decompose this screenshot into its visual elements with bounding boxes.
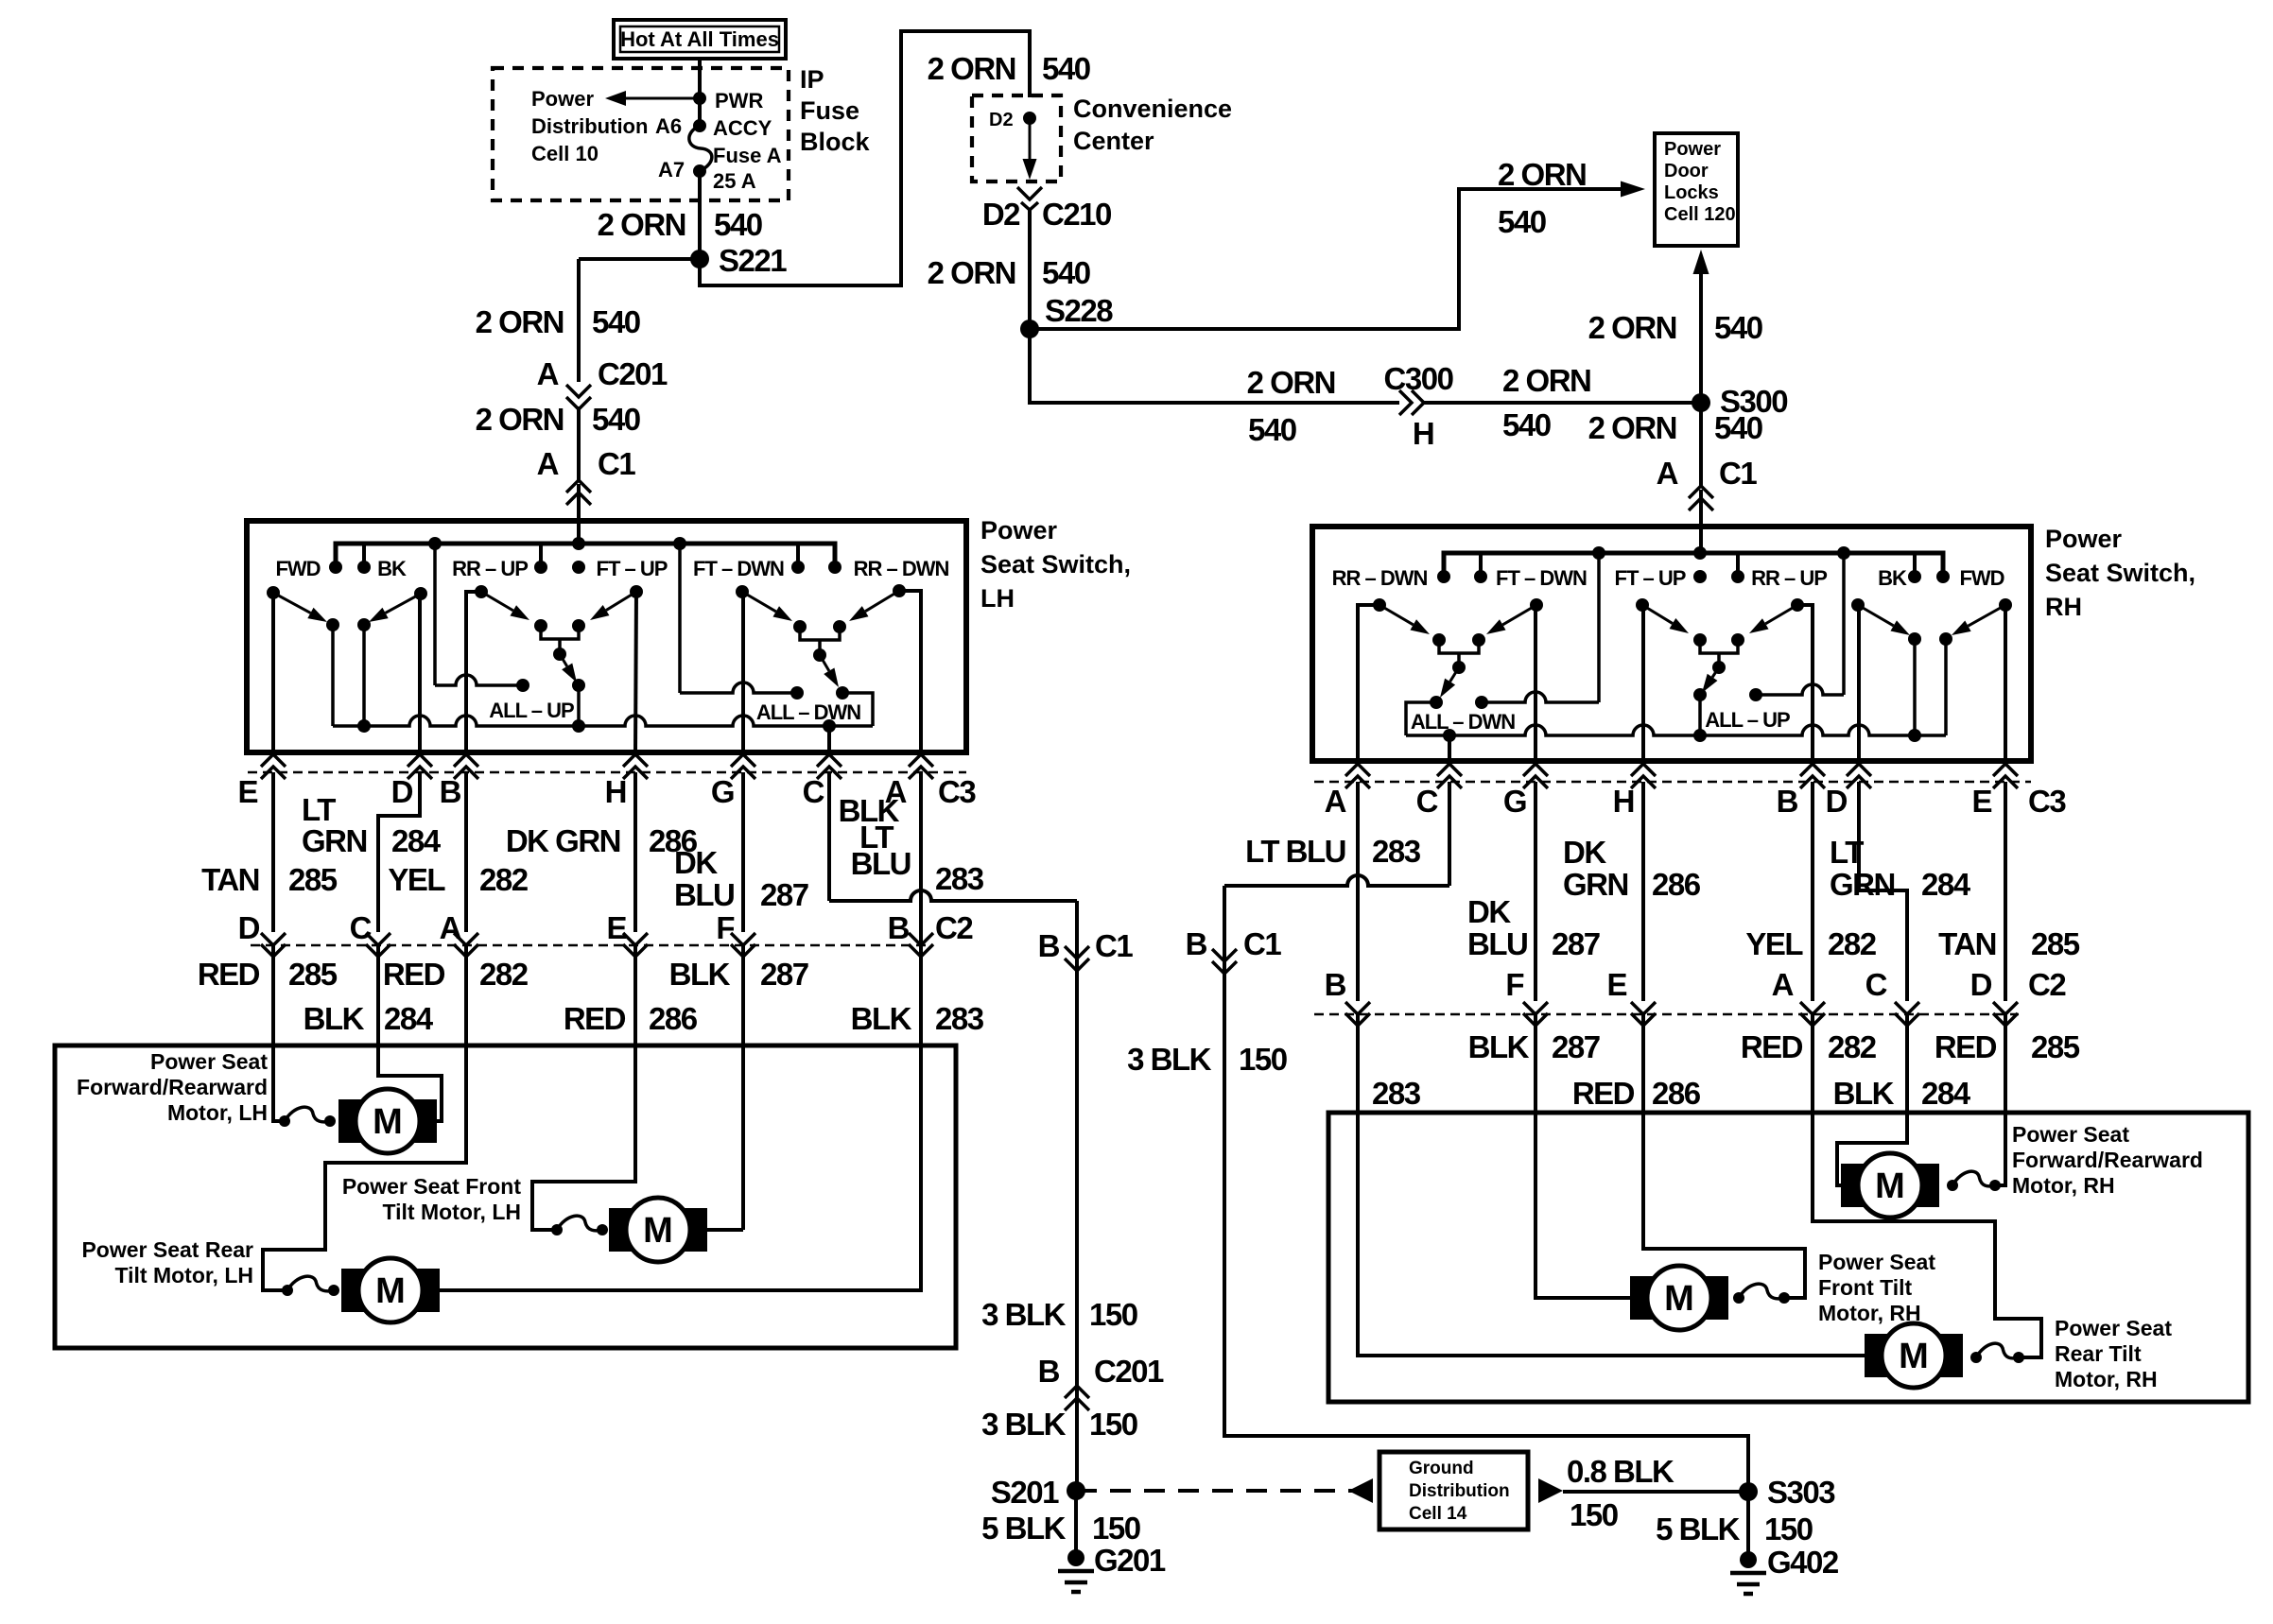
RH ALL-UP feed dot <box>1749 688 1762 701</box>
svg-text:540: 540 <box>1042 255 1090 290</box>
power feed box "Hot At All Times" <box>614 20 786 59</box>
LH C3 pin labels <box>237 774 976 809</box>
svg-text:A: A <box>537 446 559 481</box>
svg-text:287: 287 <box>1552 926 1600 961</box>
svg-text:150: 150 <box>1092 1511 1140 1546</box>
svg-text:C3: C3 <box>938 774 976 809</box>
label 2 ORN 540 (fuse output) <box>598 207 762 242</box>
svg-text:2 ORN: 2 ORN <box>1588 310 1676 345</box>
LH switch feed bus <box>336 544 835 567</box>
svg-text:285: 285 <box>288 862 338 897</box>
svg-text:Power Seat: Power Seat <box>2012 1122 2129 1147</box>
Power Distribution Cell 10 label <box>531 87 685 181</box>
svg-text:540: 540 <box>1042 51 1090 86</box>
svg-text:286: 286 <box>649 1001 698 1036</box>
svg-text:RED: RED <box>1741 1029 1803 1064</box>
wire RH pin A (LT BLU 283) <box>1356 782 1360 1001</box>
wire LH C1 down to S201 <box>1075 901 1079 1491</box>
svg-text:G201: G201 <box>1094 1543 1166 1578</box>
label 3 BLK 150 (upper) <box>981 1297 1137 1332</box>
RH ALL-DWN feed dot <box>1475 696 1488 709</box>
svg-text:BLK: BLK <box>1468 1029 1530 1064</box>
LH switch position labels <box>275 557 948 580</box>
label D2 C210 <box>982 197 1111 232</box>
svg-text:C: C <box>803 774 824 809</box>
svg-text:YEL: YEL <box>1745 926 1803 961</box>
svg-text:C: C <box>350 910 372 945</box>
dashed ground distribution link <box>1076 1489 1362 1493</box>
svg-text:Rear Tilt: Rear Tilt <box>2055 1341 2142 1366</box>
svg-text:2 ORN: 2 ORN <box>1502 363 1590 398</box>
svg-text:540: 540 <box>592 402 640 437</box>
svg-text:Power Seat Front: Power Seat Front <box>342 1174 521 1199</box>
wire RH pin E (TAN 285) <box>2004 782 2007 1001</box>
svg-text:A: A <box>537 356 559 391</box>
LH RR-UP pivot <box>466 585 488 752</box>
svg-text:283: 283 <box>935 861 984 896</box>
svg-text:Ground: Ground <box>1409 1459 1474 1478</box>
LH C3 connector chevrons <box>261 754 933 779</box>
svg-text:G: G <box>1503 784 1526 819</box>
svg-text:Power Seat: Power Seat <box>2055 1316 2172 1340</box>
svg-text:BLU: BLU <box>851 846 911 881</box>
LH RR-UP throw arrow <box>481 592 529 620</box>
svg-text:M: M <box>1664 1279 1694 1319</box>
svg-text:Power: Power <box>980 516 1058 544</box>
svg-text:C: C <box>1865 967 1887 1002</box>
svg-text:3 BLK: 3 BLK <box>1127 1042 1212 1077</box>
connector C201 (ground) chevrons <box>1065 1386 1089 1410</box>
svg-text:287: 287 <box>1552 1029 1600 1064</box>
svg-text:B: B <box>1777 784 1798 819</box>
svg-text:YEL: YEL <box>388 862 445 897</box>
wire RH D-pin to FR motor contact (RED 285) <box>1995 1014 2005 1185</box>
svg-text:Power Seat: Power Seat <box>1818 1250 1935 1274</box>
RH FT-DWN pivot <box>1530 598 1543 761</box>
LH BK contact terminal <box>357 618 371 726</box>
wire A7 down to S221 <box>698 171 702 259</box>
connector C1 symbol (RH) <box>1689 486 1713 510</box>
svg-text:Locks: Locks <box>1664 182 1719 203</box>
RH C3 connector chevrons <box>1345 764 2018 788</box>
LH ALL-DWN feed dot <box>790 686 804 700</box>
LH FT-DWN throw arrow <box>742 592 792 621</box>
RH DWN common node <box>1452 661 1466 674</box>
label LT GRN 284 (RH) <box>1830 835 1971 902</box>
label RED 285 (RH) <box>1935 1029 2080 1064</box>
svg-text:287: 287 <box>760 957 808 992</box>
motor M front tilt LH <box>609 1198 707 1262</box>
svg-text:E: E <box>1971 784 1991 819</box>
svg-text:RED: RED <box>1935 1029 1997 1064</box>
svg-text:ALL – UP: ALL – UP <box>489 699 574 722</box>
svg-text:25 A: 25 A <box>713 169 756 193</box>
LH RR-DWN throw arrow <box>849 591 899 621</box>
wire RH pin D (LT GRN 284) jog right <box>1859 782 1907 1001</box>
label DK GRN 286 <box>506 823 698 858</box>
svg-text:GRN: GRN <box>1830 867 1895 902</box>
svg-text:RED: RED <box>564 1001 626 1036</box>
svg-text:282: 282 <box>1828 1029 1877 1064</box>
svg-text:540: 540 <box>1714 410 1762 445</box>
label DK BLU 287 (RH) <box>1467 894 1600 961</box>
motor M forward/rearward RH <box>1841 1153 1939 1218</box>
LH common bus dots <box>357 719 836 733</box>
label 5 BLK 150 (S303) <box>1656 1512 1813 1546</box>
wire LH pin E (TAN 285) <box>271 772 275 932</box>
svg-text:E: E <box>237 774 257 809</box>
RH forward/rearward motor contact <box>1947 1171 2001 1191</box>
RH front tilt motor label <box>1818 1250 1935 1325</box>
RH rear tilt motor contact <box>1970 1343 2024 1363</box>
svg-text:Forward/Rearward: Forward/Rearward <box>77 1075 268 1099</box>
svg-text:Fuse A: Fuse A <box>713 144 782 167</box>
RH ALL-UP label <box>1705 708 1790 732</box>
svg-text:2 ORN: 2 ORN <box>476 402 564 437</box>
svg-text:2 ORN: 2 ORN <box>1588 410 1676 445</box>
svg-text:S228: S228 <box>1045 293 1113 328</box>
IP Fuse Block dashed box <box>493 68 789 200</box>
svg-text:C201: C201 <box>1094 1354 1164 1389</box>
splice S201 <box>991 1475 1085 1510</box>
RH bus stub FT-DWN <box>1479 553 1483 577</box>
svg-text:3 BLK: 3 BLK <box>981 1297 1067 1332</box>
svg-text:285: 285 <box>288 957 338 992</box>
RH ALL-DWN feed line <box>1482 553 1599 702</box>
arrow out of ground distribution (right) <box>1538 1478 1563 1503</box>
svg-text:Power: Power <box>2045 525 2123 553</box>
connector C300 <box>1384 361 1453 451</box>
svg-text:285: 285 <box>2031 926 2080 961</box>
LH pin C stub <box>827 726 831 752</box>
svg-text:A7: A7 <box>658 158 685 181</box>
svg-text:D2: D2 <box>989 110 1014 130</box>
svg-text:C2: C2 <box>935 910 973 945</box>
RH FWD throw arrow <box>1952 605 2005 635</box>
svg-text:RH: RH <box>2045 593 2082 621</box>
svg-text:M: M <box>1875 1166 1905 1206</box>
wire LH pin A (LT BLU 283) <box>919 772 923 1045</box>
svg-text:C3: C3 <box>2028 784 2066 819</box>
LH front tilt motor contact <box>551 1216 608 1235</box>
wire LH pin H (DK GRN 286) <box>633 772 637 932</box>
wire S201 to G201 <box>1074 1491 1078 1558</box>
label 0.8 BLK 150 <box>1567 1454 1674 1532</box>
RH C2 connector chevrons <box>1345 1002 2018 1026</box>
svg-text:G402: G402 <box>1767 1545 1839 1580</box>
svg-text:150: 150 <box>1089 1297 1137 1332</box>
RH BK contact terminal <box>1908 632 1921 735</box>
RH switch position labels <box>1332 566 2004 590</box>
svg-text:540: 540 <box>1714 310 1762 345</box>
RH RR-DWN pivot <box>1358 598 1386 761</box>
RH switch common bus <box>1406 725 1946 735</box>
svg-text:DK: DK <box>1467 894 1511 929</box>
ground G201 <box>1058 1543 1166 1592</box>
svg-text:GRN: GRN <box>1563 867 1628 902</box>
fuse ACCY Fuse A 25A symbol <box>689 116 782 193</box>
LH rear tilt motor label <box>81 1237 253 1287</box>
LH ALL-UP feed dot <box>516 679 529 692</box>
wire RH pin G (DK BLU 287) <box>1534 782 1537 1001</box>
RH DWN common throw arrow <box>1440 667 1459 698</box>
motor M front tilt RH <box>1630 1266 1728 1330</box>
wire RH E-pin to front tilt motor (RED 286) <box>1643 1014 1805 1298</box>
svg-text:B: B <box>440 774 461 809</box>
LH RR-DWN pivot <box>893 584 921 752</box>
RH C2 pin labels <box>1325 967 2067 1002</box>
Power Seat Switch LH box <box>247 521 966 752</box>
svg-text:PWR: PWR <box>715 89 763 112</box>
svg-text:Cell 120: Cell 120 <box>1664 204 1736 225</box>
svg-text:284: 284 <box>1921 867 1971 902</box>
label 2 ORN 540 (left of C300) <box>1247 365 1335 447</box>
svg-text:Cell 14: Cell 14 <box>1409 1504 1467 1524</box>
LH ALL-DWN feed line <box>680 544 797 693</box>
svg-text:A: A <box>1657 456 1678 491</box>
svg-text:150: 150 <box>1570 1497 1618 1532</box>
LH DWN common node <box>813 648 826 662</box>
svg-text:2 ORN: 2 ORN <box>476 304 564 339</box>
svg-text:C300: C300 <box>1384 361 1453 396</box>
LH ALL-UP feed line <box>435 544 523 685</box>
svg-text:5 BLK: 5 BLK <box>1656 1512 1741 1546</box>
label YEL 282 (RH) <box>1745 926 1876 961</box>
svg-text:M: M <box>375 1271 406 1311</box>
arrow into power door locks <box>1560 181 1645 198</box>
LH bus terminal dots <box>329 561 842 574</box>
wire C300 to S300 <box>1424 401 1701 405</box>
svg-text:540: 540 <box>1502 407 1551 442</box>
connector C1 pin A label (RH) <box>1657 456 1758 491</box>
wire LH E-pin to front tilt motor (RED 286) <box>532 945 635 1230</box>
RH ALL-UP feed line <box>1756 553 1844 695</box>
svg-text:284: 284 <box>1921 1076 1971 1111</box>
label BLK 284 <box>304 1001 434 1036</box>
svg-text:Door: Door <box>1664 161 1709 181</box>
RH FWD contact terminal <box>1939 632 1952 735</box>
RH forward/rearward motor label <box>2012 1122 2203 1198</box>
svg-text:C1: C1 <box>1095 928 1133 963</box>
wire LH A-pin to rear tilt motor (RED 282) <box>263 945 466 1290</box>
svg-text:BLK: BLK <box>304 1001 365 1036</box>
fuse A6 terminal <box>693 119 706 132</box>
svg-text:TAN: TAN <box>1938 926 1996 961</box>
svg-text:G: G <box>711 774 734 809</box>
IP Fuse Block label <box>800 65 871 156</box>
wire S300 down to RH switch <box>1699 403 1703 486</box>
RH C3 dashed line <box>1314 781 2031 784</box>
label BLK LT BLU <box>839 793 911 881</box>
wire PWR to A6 <box>698 98 702 126</box>
svg-text:540: 540 <box>1498 204 1546 239</box>
RH RR-DWN throw arrow <box>1379 605 1430 634</box>
RH bus junction dots <box>1592 546 1850 560</box>
svg-text:C1: C1 <box>598 446 635 481</box>
LH UP common throw arrow <box>560 654 577 682</box>
svg-text:5 BLK: 5 BLK <box>981 1511 1067 1546</box>
Power Seat Switch LH label <box>980 516 1131 613</box>
svg-text:FT – DWN: FT – DWN <box>1496 566 1587 590</box>
svg-text:F: F <box>716 910 734 945</box>
connector C201 symbol <box>566 385 591 409</box>
svg-text:2 ORN: 2 ORN <box>928 51 1015 86</box>
svg-text:DK: DK <box>1563 835 1606 870</box>
LH ALL-DWN label <box>756 700 860 724</box>
wire RH A-pin to rear tilt motor (RED 282) <box>1813 1014 2041 1357</box>
connector C201 pin A label <box>537 356 668 391</box>
svg-text:B: B <box>1325 967 1346 1002</box>
svg-text:Power: Power <box>1664 139 1721 160</box>
svg-text:2 ORN: 2 ORN <box>1247 365 1335 400</box>
svg-text:0.8 BLK: 0.8 BLK <box>1567 1454 1674 1489</box>
svg-text:Power Seat Rear: Power Seat Rear <box>81 1237 253 1262</box>
label B C1 (LH) <box>1038 928 1134 963</box>
ground G402 <box>1730 1545 1839 1594</box>
wire C210 down to S228 <box>1028 210 1032 329</box>
motor M forward/rearward LH <box>338 1089 437 1153</box>
svg-text:M: M <box>1899 1337 1929 1376</box>
svg-text:Tilt Motor, LH: Tilt Motor, LH <box>114 1263 253 1287</box>
svg-text:BK: BK <box>1878 566 1907 590</box>
svg-text:GRN: GRN <box>302 823 367 858</box>
LH FT-DWN pivot <box>736 585 749 752</box>
svg-text:H: H <box>605 774 626 809</box>
LH ALL-DWN output <box>836 686 873 726</box>
svg-text:Center: Center <box>1073 127 1154 155</box>
splice S221 <box>690 243 787 278</box>
svg-text:D: D <box>391 774 413 809</box>
svg-text:284: 284 <box>384 1001 434 1036</box>
label 2 ORN 540 (right of C300) <box>1502 363 1590 442</box>
label RED 286 (RH) <box>1572 1076 1701 1111</box>
svg-text:BLU: BLU <box>674 877 734 912</box>
svg-text:Distribution: Distribution <box>1409 1481 1510 1501</box>
RH BK pivot <box>1851 598 1865 761</box>
svg-text:DK: DK <box>674 845 718 880</box>
wire LH pin G (DK BLU 287) <box>741 772 745 932</box>
arrow up into power door locks box <box>1693 250 1709 321</box>
LH rear tilt motor contact <box>282 1276 339 1296</box>
wire RH C1 down to S303 run <box>1224 886 1748 1492</box>
RH front tilt motor contact <box>1733 1284 1790 1304</box>
label YEL 282 <box>388 862 528 897</box>
label BLK 287 <box>669 957 808 992</box>
LH C2 connector chevrons <box>261 933 933 957</box>
svg-text:BLK: BLK <box>851 1001 912 1036</box>
svg-text:283: 283 <box>935 1001 984 1036</box>
svg-text:3 BLK: 3 BLK <box>981 1407 1067 1442</box>
wire LH pin C (BLK) jog right <box>829 772 1077 901</box>
Power Seat Switch RH box <box>1312 527 2031 761</box>
svg-text:Forward/Rearward: Forward/Rearward <box>2012 1148 2203 1172</box>
wire LH pin D (LT GRN 284) <box>378 772 420 932</box>
svg-text:FT – UP: FT – UP <box>597 557 668 580</box>
RH connector C1 (down) chevrons <box>1212 949 1237 974</box>
Power Seat Switch RH label <box>2045 525 2195 621</box>
svg-text:E: E <box>1606 967 1626 1002</box>
label 283 (LT BLU) <box>935 861 984 896</box>
label B C1 (RH) <box>1186 926 1282 961</box>
RH FT-UP pivot <box>1636 598 1649 761</box>
wire RH F-pin to front tilt motor (BLK 287) <box>1536 1014 1643 1298</box>
wire RH B-pin 283 to rear tilt motor <box>1358 1014 1878 1356</box>
svg-text:Fuse: Fuse <box>800 96 859 125</box>
connector C1 pin A label (LH) <box>537 446 636 481</box>
wire S228 down to C300 run <box>1030 329 1399 403</box>
RH ALL-UP output <box>1693 688 1707 735</box>
LH UP contact pair <box>534 619 585 652</box>
svg-text:D: D <box>238 910 260 945</box>
LH bus stub FT-DWN <box>796 544 800 567</box>
connector C1 symbol (LH) <box>566 480 591 505</box>
LH DWN contact pair <box>793 620 846 653</box>
svg-text:IP: IP <box>800 65 824 94</box>
svg-text:H: H <box>1413 416 1433 451</box>
svg-text:284: 284 <box>391 823 442 858</box>
motor M rear tilt LH <box>341 1258 440 1322</box>
label 2 ORN 540 (LH feeder lower) <box>476 402 640 437</box>
wire S221 to convenience center riser <box>700 31 1030 285</box>
wire S300 up to power door locks <box>1699 261 1703 403</box>
RH C3 pin labels <box>1325 784 2067 819</box>
RH UP common node <box>1712 661 1726 674</box>
svg-text:Seat Switch,: Seat Switch, <box>2045 559 2195 587</box>
svg-text:Front Tilt: Front Tilt <box>1818 1275 1913 1300</box>
svg-text:A: A <box>440 910 461 945</box>
wire LH C-pin to FR motor (BLK 284) <box>378 945 442 1121</box>
wire C201 to C1 (LH) <box>577 406 581 480</box>
LH FT-UP throw arrow <box>590 592 636 620</box>
svg-text:150: 150 <box>1089 1407 1137 1442</box>
LH C2 pin labels <box>238 910 974 945</box>
label BLK 287 (RH) <box>1468 1029 1600 1064</box>
label DK GRN 286 (RH) <box>1563 835 1701 902</box>
wire LH D-pin to FR motor contact (RED 285) <box>273 945 285 1121</box>
svg-text:150: 150 <box>1764 1512 1813 1546</box>
svg-text:2 ORN: 2 ORN <box>928 255 1015 290</box>
svg-text:Power Seat: Power Seat <box>150 1049 268 1074</box>
RH switch feed bus <box>1444 553 1943 577</box>
RH bus stub RR-UP <box>1736 553 1740 577</box>
splice S228 <box>1020 293 1113 338</box>
svg-text:ACCY: ACCY <box>713 116 772 140</box>
svg-text:540: 540 <box>1248 412 1296 447</box>
svg-text:Seat Switch,: Seat Switch, <box>980 550 1131 579</box>
svg-text:B: B <box>1186 926 1207 961</box>
svg-text:H: H <box>1613 784 1634 819</box>
label 3 BLK 150 (RH) <box>1127 1042 1287 1077</box>
svg-text:LT: LT <box>302 792 336 827</box>
svg-text:S201: S201 <box>991 1475 1059 1510</box>
RH C2 dashed line <box>1314 1013 2019 1016</box>
terminal D2 in convenience center <box>989 110 1036 130</box>
label RED 285 <box>198 957 338 992</box>
RH ALL-DWN output <box>1406 696 1443 735</box>
LH ALL-UP output <box>572 679 585 726</box>
svg-text:S221: S221 <box>719 243 787 278</box>
svg-text:Distribution: Distribution <box>531 114 648 138</box>
LH C3 dashed line <box>248 771 966 774</box>
LH FT-UP pivot <box>630 585 643 752</box>
RH UP common throw arrow <box>1702 667 1719 693</box>
svg-text:FWD: FWD <box>275 557 320 580</box>
svg-text:RED: RED <box>1572 1076 1635 1111</box>
svg-text:Motor, RH: Motor, RH <box>2055 1367 2158 1391</box>
svg-text:282: 282 <box>479 957 529 992</box>
RH FT-UP throw arrow <box>1642 605 1689 633</box>
splice S300 <box>1692 384 1787 419</box>
